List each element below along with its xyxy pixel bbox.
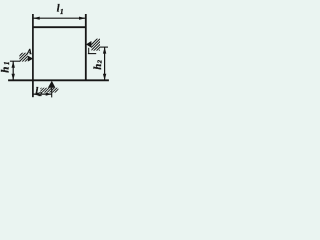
left support triangle (28, 56, 33, 62)
dimension line h1 (12, 61, 14, 80)
arrowhead l1 left (33, 17, 40, 20)
arrowhead l1 right (79, 17, 86, 20)
dimension line h2 (104, 47, 106, 80)
dimension h1 top tick (10, 60, 21, 62)
workpiece square right edge with dimension extension line (85, 14, 87, 80)
svg-text:1: 1 (3, 62, 11, 66)
workpiece square bottom edge with left/right extension ticks (8, 79, 109, 81)
dimension line l1 (33, 17, 86, 19)
dimension h2 top tick (100, 46, 108, 48)
arrowhead l2 left (33, 93, 39, 96)
svg-text:A: A (26, 48, 32, 56)
left support hatching (14, 52, 35, 62)
background paper (0, 0, 110, 110)
arrowhead h1 top (12, 61, 15, 68)
label h1 (rotated) (0, 62, 12, 73)
bottom support extension line (51, 88, 53, 98)
right support hatching (85, 38, 109, 57)
bottom support triangle (48, 81, 56, 88)
workpiece square left edge with dimension extension lines (32, 14, 34, 97)
dimension line l2 (33, 93, 52, 95)
svg-text:2: 2 (38, 91, 43, 98)
label l1 (57, 4, 64, 16)
svg-text:1: 1 (60, 8, 64, 16)
workpiece square top edge (33, 26, 86, 28)
right support triangle (86, 41, 91, 48)
right support base line (88, 53, 96, 55)
bottom support hatching (36, 87, 60, 93)
arrowhead h2 bottom (103, 74, 106, 81)
arrowhead h1 bottom (12, 74, 15, 81)
label l2 (35, 87, 42, 99)
arrowhead h2 top (103, 47, 106, 54)
svg-text:h: h (0, 67, 12, 73)
right support stub line (88, 48, 90, 54)
label h2 (rotated) (93, 59, 104, 69)
arrowhead l2 right (46, 93, 52, 96)
svg-text:h: h (93, 64, 104, 70)
